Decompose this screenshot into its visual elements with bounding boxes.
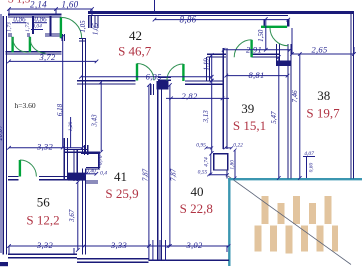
svg-text:2,65: 2,65 bbox=[311, 45, 327, 55]
svg-text:0,86: 0,86 bbox=[34, 16, 47, 24]
svg-text:40: 40 bbox=[191, 184, 204, 199]
svg-text:1,05: 1,05 bbox=[79, 20, 87, 33]
svg-text:42: 42 bbox=[129, 28, 142, 43]
svg-text:0,04: 0,04 bbox=[32, 23, 42, 30]
svg-text:0,55: 0,55 bbox=[198, 169, 208, 175]
svg-text:5,47: 5,47 bbox=[270, 111, 278, 124]
svg-text:4,07: 4,07 bbox=[304, 150, 314, 157]
svg-text:8,86: 8,86 bbox=[180, 14, 197, 24]
svg-text:2,91: 2,91 bbox=[246, 45, 262, 55]
svg-text:6,18: 6,18 bbox=[56, 103, 64, 116]
svg-text:h=3.60: h=3.60 bbox=[15, 101, 36, 110]
svg-text:S 15,1: S 15,1 bbox=[233, 118, 266, 133]
svg-text:1,50: 1,50 bbox=[257, 29, 265, 42]
svg-text:7,46: 7,46 bbox=[291, 90, 299, 103]
svg-text:2,82: 2,82 bbox=[181, 91, 198, 101]
svg-text:6,35: 6,35 bbox=[146, 72, 162, 82]
svg-text:0,95: 0,95 bbox=[196, 143, 206, 149]
svg-text:7,87: 7,87 bbox=[141, 168, 149, 181]
svg-text:3,32: 3,32 bbox=[36, 142, 54, 152]
svg-text:3,33: 3,33 bbox=[110, 240, 127, 250]
svg-text:S 12,2: S 12,2 bbox=[26, 212, 59, 227]
svg-text:S 46,7: S 46,7 bbox=[118, 44, 152, 59]
svg-text:38: 38 bbox=[317, 88, 330, 103]
svg-text:1,20: 1,20 bbox=[68, 121, 74, 131]
svg-text:0,4: 0,4 bbox=[100, 170, 107, 177]
svg-text:3,67: 3,67 bbox=[68, 209, 76, 223]
svg-text:8,81: 8,81 bbox=[248, 70, 264, 80]
svg-text:1,73: 1,73 bbox=[25, 22, 31, 32]
svg-text:56: 56 bbox=[37, 194, 51, 209]
svg-text:3,32: 3,32 bbox=[36, 240, 54, 250]
svg-text:10,07: 10,07 bbox=[0, 125, 4, 141]
svg-text:3,43: 3,43 bbox=[91, 114, 99, 128]
svg-text:S 25,9: S 25,9 bbox=[105, 186, 138, 201]
svg-text:1,19: 1,19 bbox=[203, 58, 211, 71]
svg-text:S 1,5: S 1,5 bbox=[8, 0, 31, 6]
svg-text:0,40: 0,40 bbox=[86, 168, 96, 175]
svg-text:39: 39 bbox=[241, 101, 254, 116]
svg-text:1,05: 1,05 bbox=[92, 22, 100, 35]
svg-text:0,60: 0,60 bbox=[309, 162, 315, 172]
svg-text:7,87: 7,87 bbox=[169, 168, 177, 181]
svg-text:S 19,7: S 19,7 bbox=[306, 106, 340, 121]
svg-text:3,72: 3,72 bbox=[38, 52, 56, 62]
svg-text:S 22,8: S 22,8 bbox=[180, 201, 213, 216]
svg-text:1,80: 1,80 bbox=[230, 160, 236, 170]
svg-text:0,22: 0,22 bbox=[233, 143, 243, 149]
svg-text:3,13: 3,13 bbox=[202, 110, 210, 124]
svg-text:1,73: 1,73 bbox=[7, 22, 13, 32]
svg-text:3,02: 3,02 bbox=[185, 240, 203, 250]
svg-text:1,60: 1,60 bbox=[62, 0, 79, 10]
svg-text:41: 41 bbox=[114, 169, 127, 184]
svg-text:4,74: 4,74 bbox=[202, 157, 209, 167]
svg-text:0,70: 0,70 bbox=[98, 155, 104, 165]
svg-text:2,14: 2,14 bbox=[30, 0, 47, 10]
